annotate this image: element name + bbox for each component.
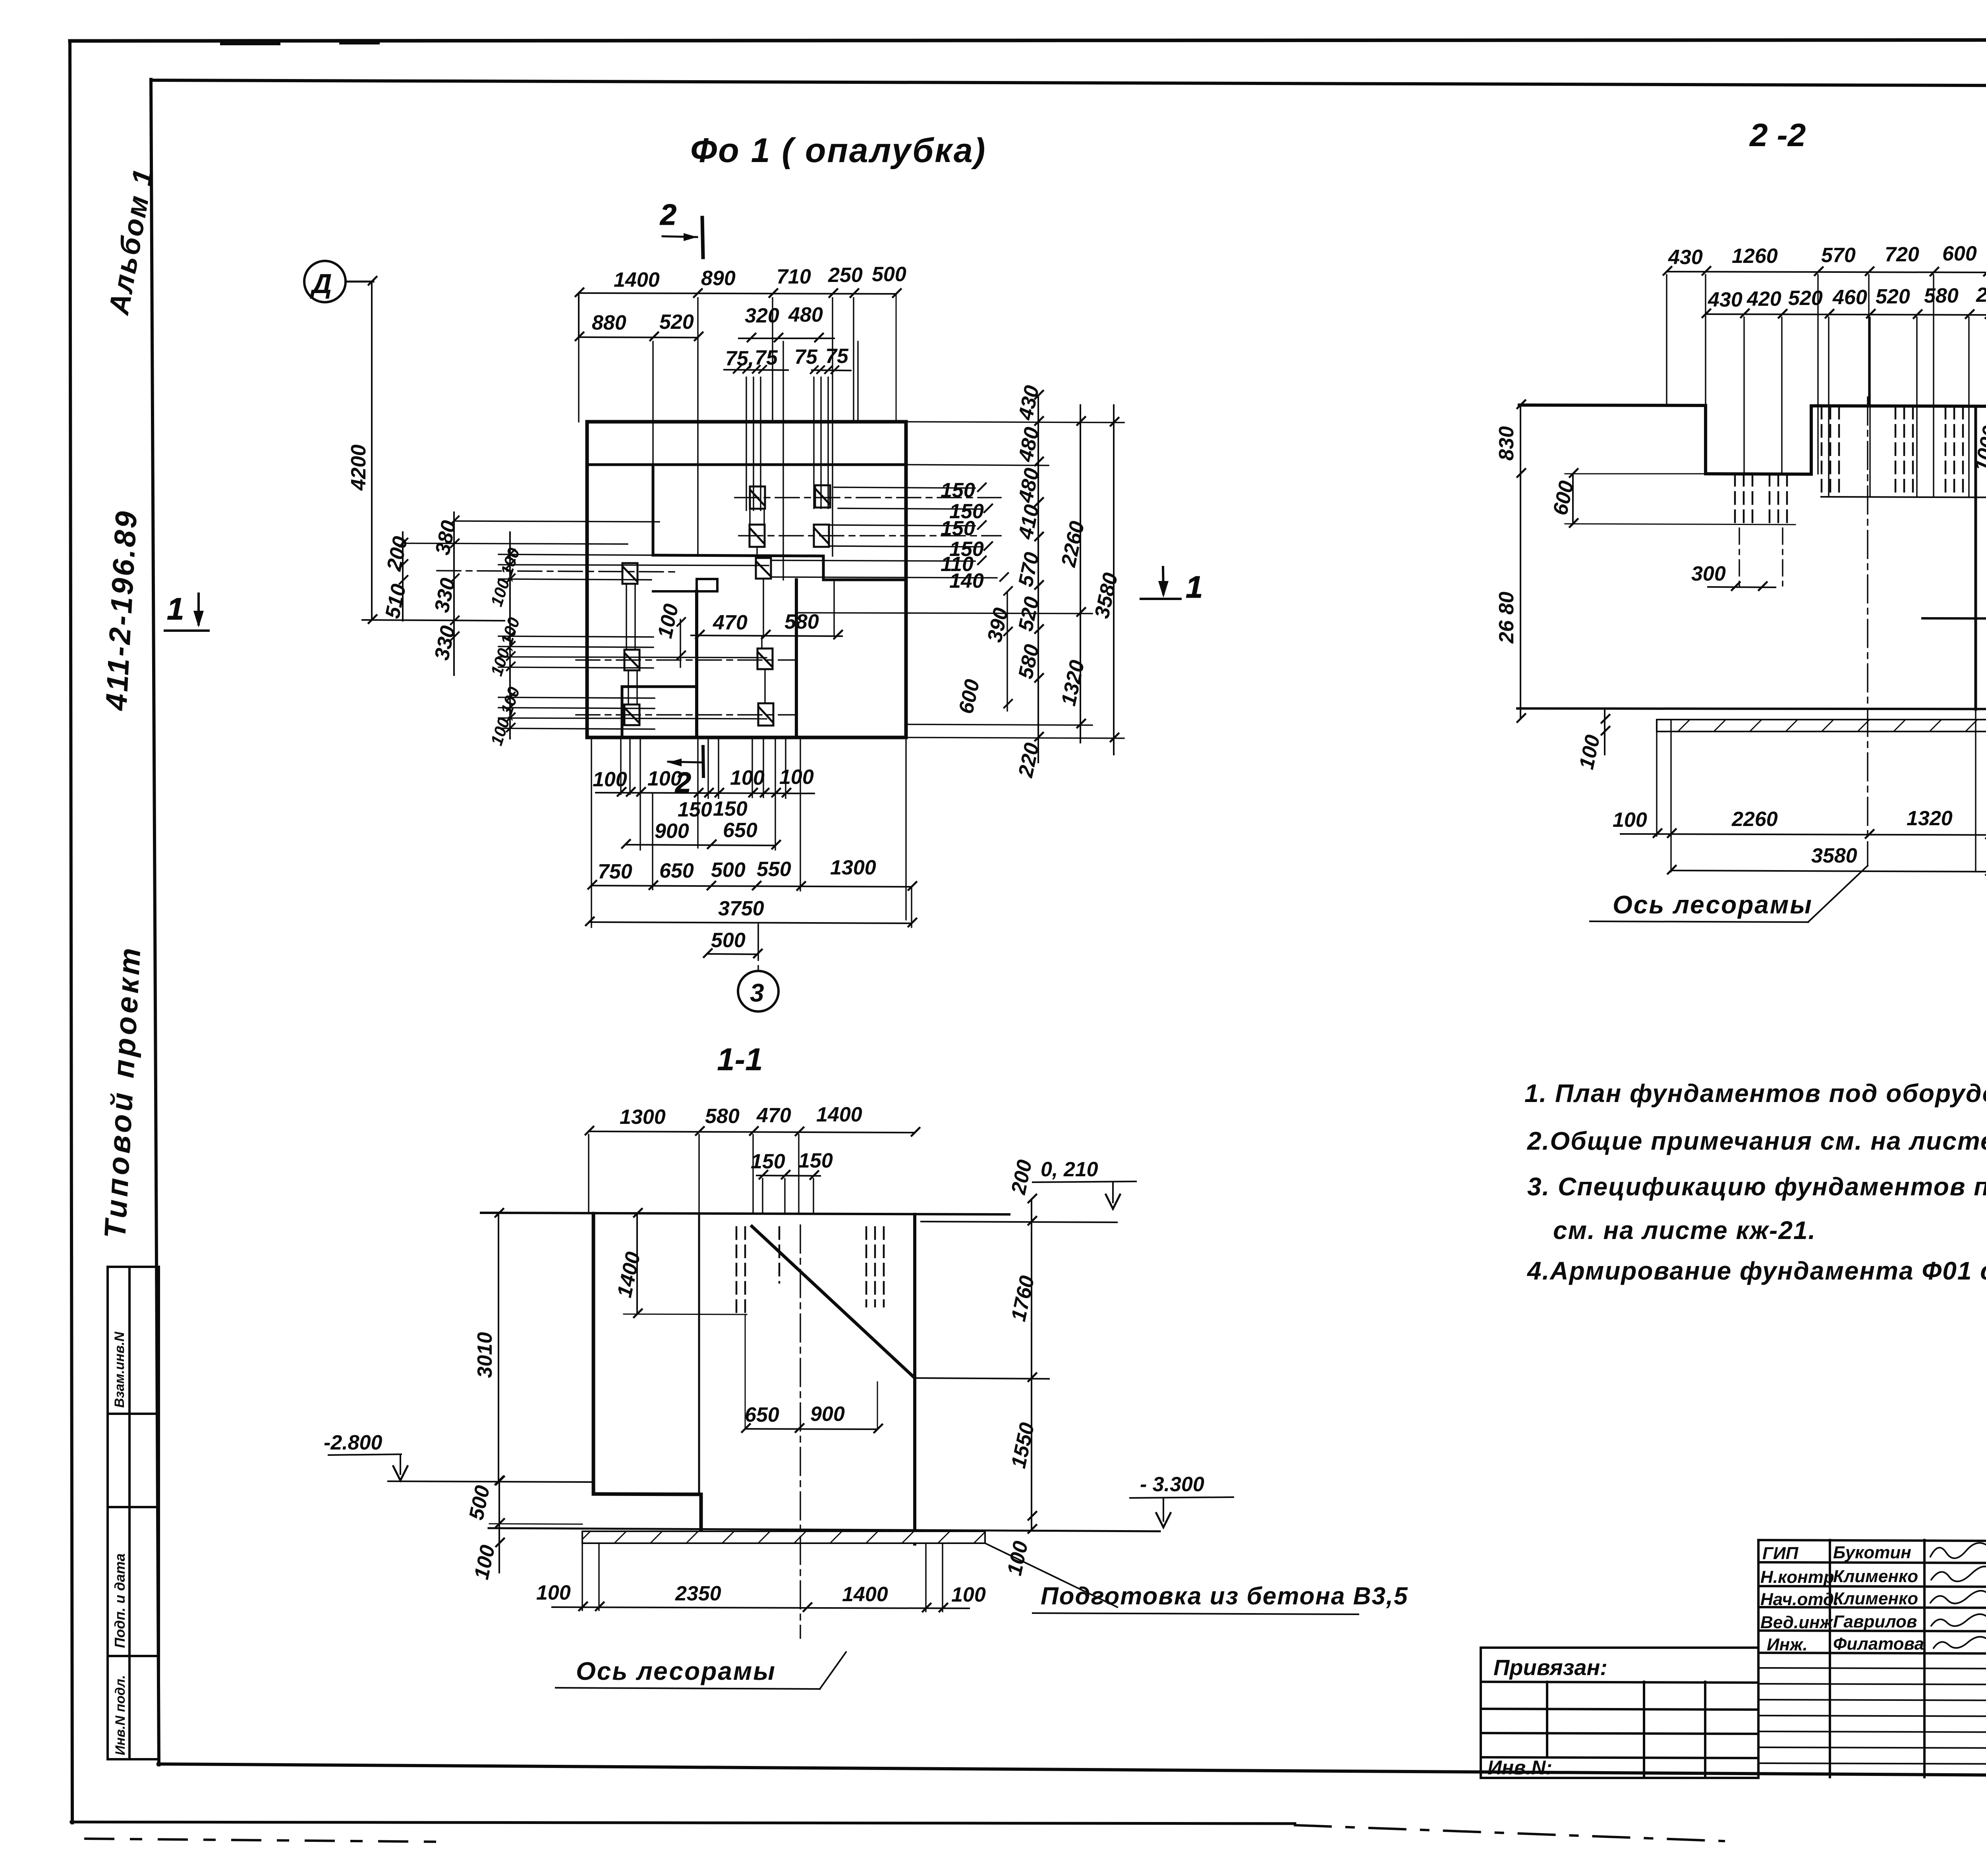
svg-text:Нач.отд.: Нач.отд. — [1760, 1590, 1839, 1609]
svg-text:2350: 2350 — [675, 1582, 721, 1605]
right ext horizontals — [796, 422, 1124, 738]
plan neck top — [653, 590, 697, 593]
svg-text:ГИП: ГИП — [1762, 1544, 1799, 1563]
2-2 dim 300 — [1708, 582, 1775, 590]
sig table texts — [1760, 1541, 1986, 1654]
svg-text:100: 100 — [593, 768, 627, 791]
svg-text:2.Общие примечания см. на ли: 2.Общие примечания см. на листе кж-23. — [1527, 1127, 1986, 1155]
axis left row — [437, 571, 675, 572]
1-1 bed hatched strip — [582, 1531, 985, 1543]
svg-text:250: 250 — [828, 264, 863, 287]
svg-text:150: 150 — [941, 517, 975, 540]
svg-text:1400: 1400 — [614, 268, 660, 291]
2-2 bottom dims — [1621, 829, 1986, 838]
svg-text:Вед.инж: Вед.инж — [1760, 1613, 1834, 1632]
svg-text:75,: 75, — [725, 347, 754, 370]
inner frame bottom — [158, 1764, 1986, 1778]
title block top — [1758, 1540, 1986, 1543]
extension verticals bottom — [591, 737, 912, 958]
2-2 dim row2 — [1702, 309, 1986, 318]
plan inner step right jog — [823, 556, 906, 580]
dim row A line — [576, 288, 901, 422]
svg-text:3010: 3010 — [473, 1332, 496, 1378]
svg-text:Взам.инв.N: Взам.инв.N — [112, 1331, 127, 1408]
svg-text:4.Армирование фундамента Ф01: 4.Армирование фундамента Ф01 см. на лист… — [1526, 1256, 1986, 1285]
svg-text:Привязан:: Привязан: — [1493, 1655, 1607, 1680]
plan inner step horizontal — [653, 555, 823, 556]
stamp column outer — [108, 1267, 159, 1759]
axis row2 — [739, 535, 1001, 537]
svg-text:650: 650 — [659, 859, 694, 882]
svg-text:Подготовка из бетона В3,5: Подготовка из бетона В3,5 — [1041, 1583, 1408, 1610]
svg-text:1300: 1300 — [620, 1106, 666, 1129]
outer border top — [70, 40, 1986, 41]
svg-text:Д: Д — [310, 268, 332, 299]
1-1 bolt dashes left — [736, 1227, 779, 1314]
anchor bolts plan — [622, 485, 830, 726]
svg-text:900: 900 — [810, 1403, 845, 1426]
bottom-left small dash mark — [85, 1839, 445, 1842]
svg-text:890: 890 — [701, 267, 736, 290]
svg-text:480: 480 — [788, 303, 823, 326]
right dim col 3 — [1111, 405, 1119, 755]
dim row 3750 — [586, 917, 916, 926]
1-1 diagonal — [752, 1226, 915, 1378]
svg-text:580: 580 — [1924, 284, 1959, 307]
2-2 right outline step — [1922, 407, 1986, 709]
svg-text:100: 100 — [951, 1583, 986, 1606]
2-2 bed hatched strip — [1657, 720, 1986, 731]
outer bottom fold dash-dot — [1295, 1825, 1724, 1841]
svg-text:580: 580 — [784, 610, 819, 633]
svg-text:Букотин: Букотин — [1833, 1543, 1911, 1562]
svg-text:Н.контр: Н.контр — [1760, 1567, 1834, 1587]
1-1 dim 650 900 — [742, 1314, 882, 1432]
section mark 2 top — [659, 198, 703, 257]
svg-text:0, 210: 0, 210 — [1041, 1158, 1098, 1181]
svg-text:100: 100 — [536, 1581, 571, 1604]
svg-text:26 80: 26 80 — [1495, 592, 1518, 644]
svg-text:100: 100 — [730, 766, 765, 789]
axis circle 3 — [738, 971, 779, 1011]
plan inner step left vertical — [652, 465, 655, 555]
svg-text:300: 300 — [1691, 562, 1726, 585]
svg-text:3580: 3580 — [1811, 844, 1857, 867]
2-2 bottom line — [1517, 708, 1986, 709]
2-2 top edge with notch — [1519, 405, 1986, 474]
1-1 dim 150 150 — [757, 1171, 820, 1179]
svg-text:500: 500 — [711, 859, 746, 882]
svg-text:100: 100 — [647, 767, 682, 790]
plan neck bump — [697, 579, 717, 591]
svg-text:520: 520 — [1876, 285, 1910, 308]
dim row 750 650 500 550 1300 — [588, 881, 916, 890]
svg-text:720: 720 — [1885, 243, 1919, 266]
svg-text:Подп. и дата: Подп. и дата — [112, 1554, 128, 1648]
svg-text:3: 3 — [750, 979, 764, 1007]
bolt axis verticals top — [579, 296, 858, 704]
2-2 dim row1 — [1663, 267, 1986, 276]
section mark 1 left — [165, 591, 209, 631]
svg-text:3750: 3750 — [718, 897, 764, 920]
1-1 top right offset line — [921, 1222, 1117, 1222]
svg-text:150: 150 — [713, 797, 748, 820]
svg-text:150: 150 — [941, 479, 975, 502]
vertical axis center — [757, 925, 759, 971]
svg-text:430: 430 — [1668, 246, 1703, 269]
inner frame top — [151, 80, 1986, 87]
svg-text:2260: 2260 — [1731, 808, 1778, 831]
svg-text:1: 1 — [1186, 569, 1203, 604]
bolt B2 — [814, 525, 829, 547]
2-2 axis line — [1867, 397, 1868, 866]
svg-text:460: 460 — [1832, 286, 1867, 309]
bolt L2 — [624, 650, 639, 670]
svg-text:Клименко: Клименко — [1833, 1567, 1918, 1586]
bolt M2 — [757, 648, 773, 669]
svg-text:830: 830 — [1495, 426, 1518, 461]
svg-text:520: 520 — [659, 311, 694, 334]
svg-text:3. Спецификацию фундаментов п: 3. Спецификацию фундаментов под оборудов… — [1527, 1172, 1986, 1201]
svg-text:2: 2 — [659, 198, 676, 231]
svg-text:710: 710 — [777, 265, 811, 288]
svg-text:1-1: 1-1 — [717, 1042, 763, 1077]
2-2 anchor bolt dashes left group — [1735, 474, 1787, 528]
svg-text:Инж.: Инж. — [1767, 1635, 1808, 1654]
plan neck left — [695, 591, 698, 737]
svg-text:Гаврилов: Гаврилов — [1833, 1612, 1917, 1631]
1-1 dim top row — [585, 1127, 920, 1136]
svg-text:Филатова: Филатова — [1833, 1634, 1924, 1654]
svg-text:100: 100 — [1613, 809, 1647, 832]
svg-text:1. План фундаментов под обо: 1. План фундаментов под оборудование см.… — [1524, 1079, 1986, 1108]
left callout lines group2 — [498, 636, 653, 637]
2-2 dim 830/2680 left — [1517, 400, 1525, 722]
svg-text:Ось лесорамы: Ось лесорамы — [576, 1657, 776, 1685]
svg-text:140: 140 — [949, 569, 984, 593]
left vertical dim lines — [400, 512, 515, 739]
bolt A2 — [815, 485, 830, 508]
outer border left — [70, 41, 72, 1823]
svg-text:1: 1 — [167, 591, 184, 626]
1-1 inner vertical — [698, 1214, 700, 1494]
svg-text:1400: 1400 — [842, 1583, 888, 1606]
svg-text:600: 600 — [1942, 242, 1977, 265]
section mark 1 right — [1141, 567, 1203, 604]
1-1 step — [593, 1494, 701, 1494]
stamp row line 1 — [108, 1413, 159, 1415]
2-2 bolt tails below left group — [1739, 528, 1783, 586]
svg-text:2 -2: 2 -2 — [1749, 117, 1806, 153]
sig table outline — [1757, 1540, 1760, 1777]
registration marks top — [222, 41, 278, 45]
svg-text:150: 150 — [798, 1149, 833, 1172]
2-2 dim 600 left — [1565, 469, 1795, 527]
1-1 top surface — [481, 1213, 1009, 1214]
2-2 extension verticals from dims — [1667, 275, 1986, 497]
1-1 right edge — [913, 1214, 916, 1544]
bolt C1 — [756, 558, 771, 579]
right dim col 2 — [1077, 405, 1085, 743]
svg-text:430: 430 — [1708, 288, 1743, 311]
stamp row line 3 — [108, 1655, 159, 1657]
right callouts 150 stack — [771, 483, 1008, 581]
svg-text:220: 220 — [1976, 284, 1986, 307]
svg-text:75: 75 — [794, 345, 818, 369]
1-1 axis line — [800, 1225, 801, 1638]
svg-text:550: 550 — [757, 858, 791, 881]
bolt B1 — [750, 525, 765, 547]
svg-text:Фо 1 ( опалубка): Фо 1 ( опалубка) — [690, 131, 986, 170]
left callout lines group3 — [498, 697, 655, 698]
svg-text:Инв.N подл.: Инв.N подл. — [113, 1675, 128, 1755]
section mark 2 bottom — [668, 747, 704, 799]
svg-text:750: 750 — [598, 860, 632, 883]
svg-text:650: 650 — [723, 819, 757, 842]
short dim line 390/600 — [1004, 587, 1012, 711]
svg-text:-2.800: -2.800 — [324, 1431, 383, 1454]
svg-text:75: 75 — [825, 345, 849, 368]
1-1 right dim col — [1028, 1195, 1036, 1533]
extension verticals from top dims — [578, 296, 579, 422]
svg-text:1260: 1260 — [1732, 245, 1778, 268]
svg-text:500: 500 — [872, 263, 906, 286]
svg-text:580: 580 — [705, 1105, 740, 1128]
inner frame left — [151, 79, 159, 1765]
interior verticals plan — [749, 509, 750, 525]
1-1 extension verticals top — [589, 1135, 813, 1213]
axis low row — [576, 714, 794, 716]
plan lower-left step horizontal — [622, 685, 694, 688]
podgotovka leader — [985, 1543, 1117, 1607]
sig rows — [1758, 1562, 1986, 1563]
dim row B line — [576, 332, 834, 342]
svg-text:880: 880 — [592, 311, 626, 334]
svg-text:см. на листе кж-21.: см. на листе кж-21. — [1553, 1216, 1816, 1245]
axis row1 — [735, 497, 1001, 498]
svg-text:100: 100 — [779, 766, 814, 789]
plan lower-left step vertical — [621, 687, 624, 737]
left callout lines group1 — [402, 521, 769, 729]
plan step line top — [587, 463, 906, 466]
1-1 diagonal top ext — [915, 1378, 1049, 1379]
svg-text:420: 420 — [1746, 288, 1781, 311]
svg-text:- 3.300: - 3.300 — [1140, 1473, 1204, 1496]
dash-dot axes plan — [437, 498, 1001, 971]
plan neck right — [795, 580, 798, 737]
left stamp column — [108, 1267, 159, 1759]
svg-text:150: 150 — [751, 1150, 785, 1173]
1-1 dim 1400 inner — [624, 1209, 747, 1317]
1-1 bottom dims — [552, 1602, 969, 1612]
plan outer rectangle — [587, 422, 906, 737]
dim row 100s — [596, 788, 814, 797]
1-1 left edge — [592, 1214, 595, 1494]
svg-text:150: 150 — [678, 798, 712, 821]
bolt L3 — [624, 704, 639, 725]
2-2 dim 100 left vertical — [1602, 709, 1609, 755]
axis D circle — [304, 261, 346, 302]
stamp row line 2 — [108, 1506, 159, 1508]
signatures squiggles — [1930, 1543, 1986, 1648]
svg-text:Ось лесорамы: Ось лесорамы — [1613, 890, 1813, 919]
svg-text:Клименко: Клименко — [1833, 1589, 1918, 1608]
bolt L1 — [622, 563, 638, 584]
1-1 left dims 500 100 — [489, 1476, 582, 1573]
svg-text:650: 650 — [745, 1403, 779, 1426]
dim row 900 650 — [622, 840, 780, 849]
dim row 500 — [704, 949, 762, 957]
svg-text:1300: 1300 — [830, 856, 876, 879]
2-2 dim 1000 right upper — [1821, 402, 1986, 500]
dim 4200 vertical — [362, 277, 504, 623]
privyazan table — [1481, 1648, 1758, 1778]
svg-text:900: 900 — [655, 820, 689, 843]
1-1 bolt dashes right — [866, 1227, 884, 1307]
1-1 bottom ext verticals — [582, 1543, 943, 1612]
svg-text:4200: 4200 — [347, 444, 370, 491]
outer border bottom (solid part) — [71, 1822, 1295, 1824]
svg-text:500: 500 — [711, 929, 746, 952]
svg-text:570: 570 — [1821, 244, 1856, 267]
stamp column divider — [128, 1267, 131, 1759]
dim row C 75s — [724, 366, 851, 373]
svg-text:320: 320 — [745, 304, 779, 327]
right dim col 1 — [1035, 391, 1043, 762]
svg-text:470: 470 — [756, 1104, 791, 1127]
2-2 bed verticals — [1657, 709, 1986, 872]
2-2 dim 3580 — [1668, 866, 1986, 875]
svg-text:470: 470 — [713, 611, 748, 634]
bolt M3 — [758, 703, 773, 726]
svg-text:1400: 1400 — [816, 1103, 862, 1126]
1-1 dim 3010 — [495, 1209, 503, 1484]
empty grid rows — [1758, 1668, 1986, 1669]
1-1 bottom line — [489, 1528, 1160, 1531]
svg-text:75: 75 — [755, 346, 778, 369]
svg-text:Инв.N:: Инв.N: — [1488, 1756, 1552, 1779]
2-2 anchor bolt dashes right groups — [1822, 407, 1963, 497]
bolt A1 — [750, 486, 765, 509]
svg-text:1320: 1320 — [1907, 807, 1953, 830]
axis mid row — [576, 659, 794, 661]
1-1 step down — [699, 1494, 703, 1530]
axis D line — [346, 281, 373, 283]
